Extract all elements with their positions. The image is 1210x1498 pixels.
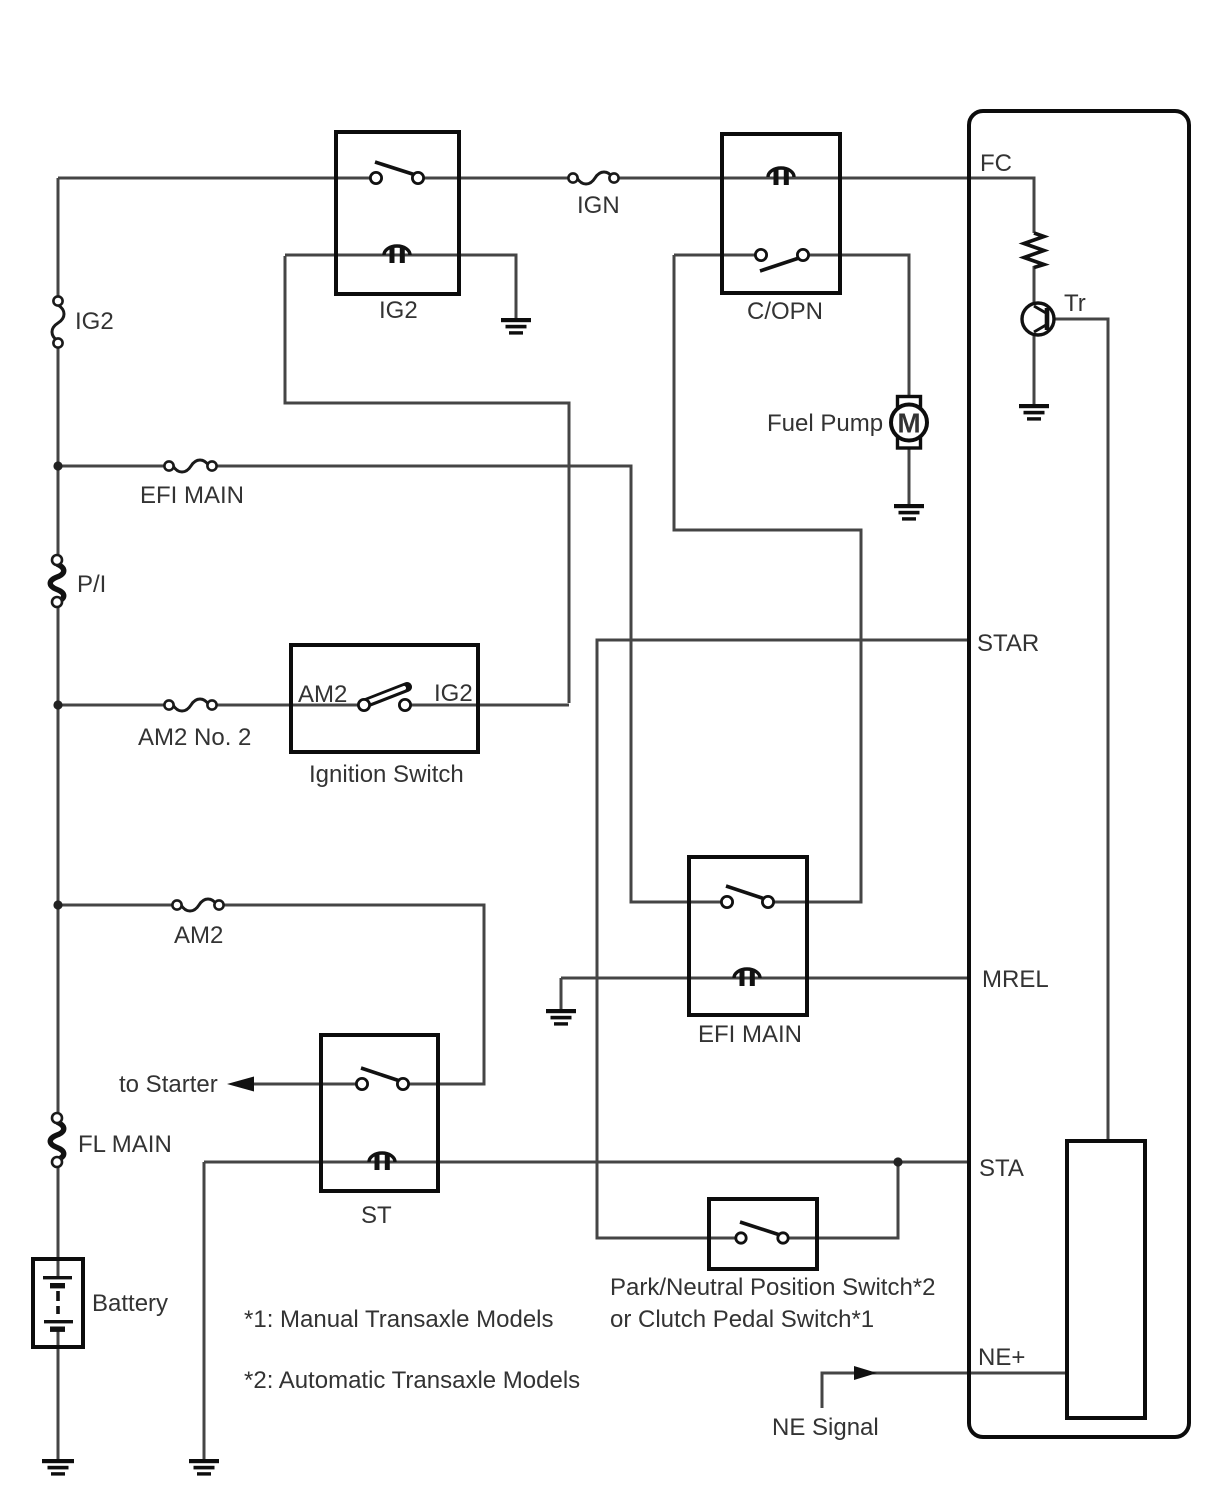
svg-text:IG2: IG2: [434, 680, 473, 707]
svg-text:C/OPN: C/OPN: [747, 298, 823, 325]
svg-text:Fuel Pump: Fuel Pump: [767, 410, 883, 437]
svg-text:P/I: P/I: [77, 571, 106, 598]
svg-text:or Clutch Pedal Switch*1: or Clutch Pedal Switch*1: [610, 1306, 874, 1333]
svg-text:EFI MAIN: EFI MAIN: [140, 482, 244, 509]
svg-text:to Starter: to Starter: [119, 1071, 218, 1098]
svg-text:ST: ST: [361, 1202, 392, 1229]
svg-text:Park/Neutral Position Switch*2: Park/Neutral Position Switch*2: [610, 1274, 935, 1301]
svg-text:IG2: IG2: [75, 308, 114, 335]
svg-text:STAR: STAR: [977, 630, 1039, 657]
svg-text:IGN: IGN: [577, 192, 620, 219]
svg-text:M: M: [897, 408, 920, 439]
svg-text:STA: STA: [979, 1155, 1024, 1182]
svg-text:Tr: Tr: [1064, 290, 1086, 317]
svg-text:FL MAIN: FL MAIN: [78, 1131, 172, 1158]
svg-text:NE Signal: NE Signal: [772, 1414, 879, 1441]
svg-text:Ignition Switch: Ignition Switch: [309, 761, 464, 788]
svg-text:AM2 No. 2: AM2 No. 2: [138, 724, 251, 751]
svg-text:EFI MAIN: EFI MAIN: [698, 1021, 802, 1048]
svg-text:AM2: AM2: [298, 681, 347, 708]
svg-text:NE+: NE+: [978, 1344, 1025, 1371]
svg-text:FC: FC: [980, 150, 1012, 177]
svg-text:IG2: IG2: [379, 297, 418, 324]
svg-text:AM2: AM2: [174, 922, 223, 949]
svg-text:Battery: Battery: [92, 1290, 168, 1317]
svg-text:*2: Automatic Transaxle Models: *2: Automatic Transaxle Models: [244, 1367, 580, 1394]
svg-text:MREL: MREL: [982, 966, 1049, 993]
svg-text:*1: Manual Transaxle Models: *1: Manual Transaxle Models: [244, 1306, 554, 1333]
